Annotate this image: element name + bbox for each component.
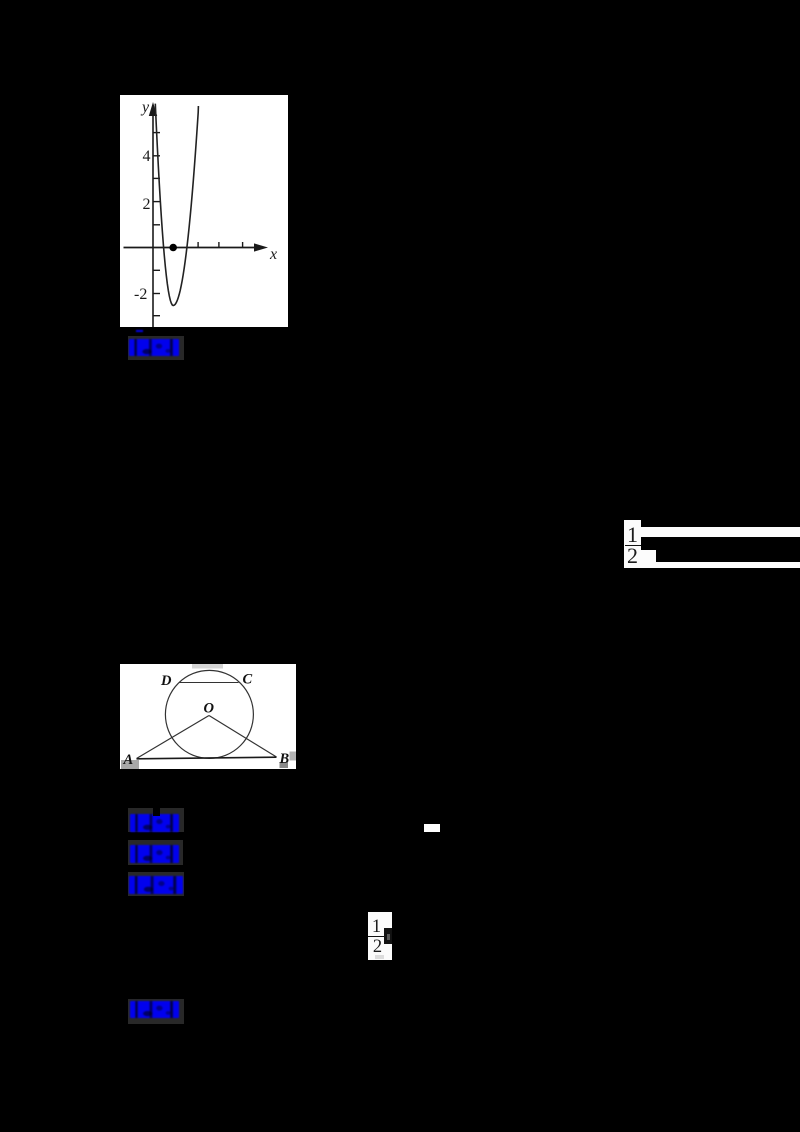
circle O (165, 670, 253, 758)
svg-text:4: 4 (143, 148, 151, 165)
blue label 2 (128, 808, 184, 832)
svg-text:y: y (140, 99, 150, 116)
x-axis (124, 247, 262, 249)
svg-text:A: A (123, 752, 134, 768)
fraction 1/2 (first) (624, 520, 641, 568)
figure: circle with triangle (120, 664, 296, 769)
svg-text:x: x (269, 246, 277, 263)
figure: parabola graph (120, 95, 288, 327)
parabola curve (155, 104, 198, 306)
gray right of B (290, 752, 297, 761)
gray behind A (121, 760, 139, 769)
svg-text:C: C (243, 672, 253, 688)
chord DC (179, 682, 239, 684)
labels (123, 672, 290, 769)
svg-text:-2: -2 (134, 286, 147, 303)
y ticks (153, 133, 160, 316)
blue label 4 (128, 872, 184, 897)
blue label 3 (128, 840, 183, 865)
blue label 1 (128, 336, 184, 361)
y-axis (152, 113, 154, 327)
svg-text:B: B (279, 751, 290, 767)
fraction 1/2 (second) (368, 912, 392, 960)
svg-text:D: D (160, 673, 172, 689)
gray smudge top (192, 664, 223, 669)
white dash (424, 824, 440, 832)
svg-text:2: 2 (143, 196, 151, 213)
triangle lines (137, 716, 210, 759)
white text-highlight bars (640, 527, 800, 537)
axis labels (134, 99, 277, 303)
x ticks (198, 242, 243, 248)
svg-text:O: O (204, 701, 215, 717)
dot on x-axis (169, 244, 177, 252)
blue label 5 (128, 999, 184, 1024)
blue speck (136, 330, 143, 333)
